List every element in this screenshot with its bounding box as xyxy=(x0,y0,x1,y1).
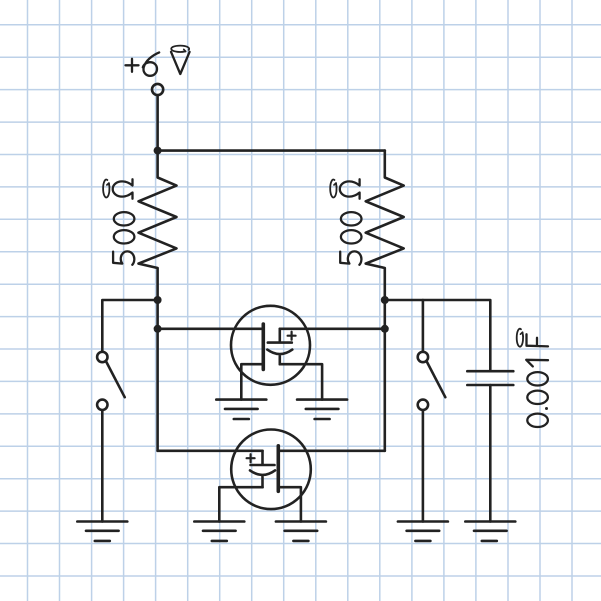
wire switch S2 to ground xyxy=(422,410,425,521)
switch S2 stem xyxy=(422,300,425,351)
label 0.001 F C1 xyxy=(517,329,548,427)
switch S2 xyxy=(418,352,446,410)
wire right rail down xyxy=(383,300,386,451)
switch S1 xyxy=(97,352,125,410)
transistor Q2 curved plate xyxy=(250,470,275,487)
ground G6 xyxy=(398,522,448,541)
junction dot A xyxy=(154,147,162,155)
junction dot B xyxy=(154,296,162,304)
junction dot C xyxy=(154,325,162,333)
ground G3 xyxy=(297,400,347,419)
ground G5 xyxy=(276,522,326,541)
wire Q1 plate to right rail xyxy=(280,327,385,330)
label 500 ohm R1 xyxy=(103,179,134,265)
wire capacitor to ground G7 xyxy=(489,385,492,522)
wire switch S1 to ground xyxy=(101,410,104,521)
transistor Q1 curved plate xyxy=(267,350,292,365)
wire Q2 gate to right rail xyxy=(278,449,385,452)
node +6V supply terminal xyxy=(152,84,163,95)
ground G4 xyxy=(194,522,244,541)
transistor Q1 gate bar xyxy=(261,324,265,369)
ground G2 xyxy=(216,400,266,419)
wire gate of Q1 xyxy=(158,327,262,330)
capacitor C1 xyxy=(467,371,513,385)
transistor Q2 gate bar xyxy=(276,446,280,492)
junction dot D xyxy=(381,296,389,304)
ground G7 xyxy=(465,522,515,541)
wire terminal to top junction xyxy=(156,95,159,150)
resistor R1 xyxy=(139,151,177,300)
transistor Q2 body xyxy=(231,430,311,510)
wire Q1 gate to ground G2 xyxy=(241,364,263,399)
wire Q2 plate to ground G4 xyxy=(219,487,262,521)
transistor Q1 plate lead xyxy=(268,329,292,343)
resistor R2 xyxy=(366,151,404,300)
transistor Q1 plus sign xyxy=(288,332,296,340)
transistor Q2 plate lead xyxy=(251,451,275,465)
transistor Q1 body xyxy=(231,306,310,385)
wire to Q2 left plate xyxy=(158,449,263,452)
wire Q1 plate to ground G3 xyxy=(280,364,322,399)
wire top rail xyxy=(158,149,385,152)
wire left to switch S1 xyxy=(102,300,157,351)
wire Q2 gate to ground G5 xyxy=(278,487,301,521)
junction dot E xyxy=(381,325,389,333)
wire right rail top xyxy=(385,300,491,371)
transistor Q2 plus sign xyxy=(247,454,255,462)
wire left rail down xyxy=(156,300,159,451)
label +6 V xyxy=(126,46,190,76)
label 500 ohm R2 xyxy=(330,179,361,265)
ground G1 xyxy=(77,522,127,541)
